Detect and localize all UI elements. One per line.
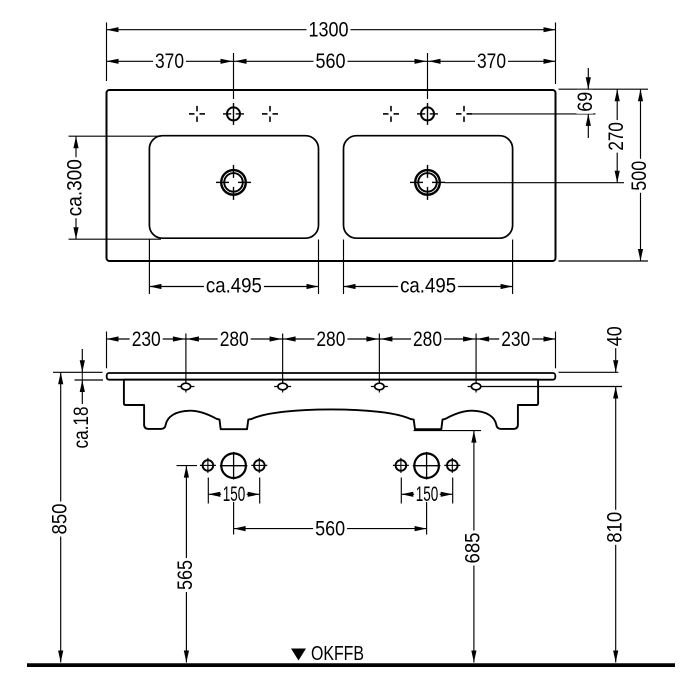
svg-text:370: 370 [155, 49, 184, 73]
svg-text:OKFFB: OKFFB [311, 643, 364, 665]
svg-text:40: 40 [602, 326, 626, 346]
svg-text:560: 560 [315, 516, 345, 540]
svg-text:370: 370 [477, 49, 506, 73]
svg-text:280: 280 [316, 327, 345, 351]
svg-text:280: 280 [413, 327, 442, 351]
svg-text:ca.18: ca.18 [69, 406, 93, 448]
svg-text:ca.495: ca.495 [206, 273, 262, 297]
svg-text:850: 850 [47, 503, 71, 534]
svg-text:ca.300: ca.300 [63, 159, 87, 216]
svg-text:685: 685 [461, 532, 485, 563]
svg-text:560: 560 [316, 49, 346, 73]
svg-text:565: 565 [173, 560, 197, 590]
svg-text:230: 230 [501, 327, 530, 351]
svg-text:500: 500 [627, 161, 651, 191]
svg-text:1300: 1300 [309, 18, 349, 42]
svg-text:ca.495: ca.495 [400, 273, 456, 297]
svg-text:230: 230 [132, 327, 161, 351]
svg-text:280: 280 [220, 327, 249, 351]
svg-text:810: 810 [602, 512, 626, 543]
svg-text:270: 270 [604, 122, 628, 151]
svg-text:69: 69 [573, 92, 597, 112]
